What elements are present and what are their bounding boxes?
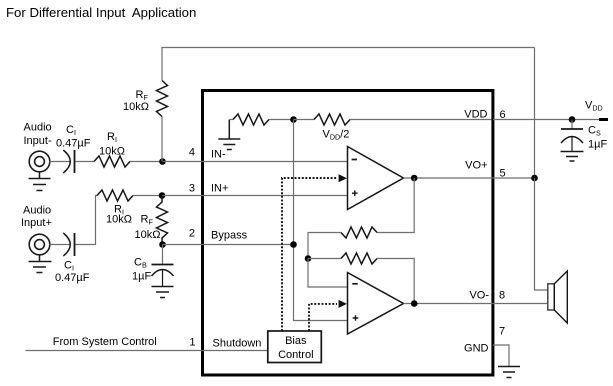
node E (bypass/divider junction) [290,241,297,248]
wire RF top to feedback line [162,48,535,81]
node B (IN+ junction) [159,192,166,199]
wire J1 to C1 [50,161,71,163]
title [6,5,196,20]
resistor R2 10k (input+) [97,190,133,201]
wire node A up to RF [161,117,163,162]
svg-text:VO-: VO- [469,290,489,302]
label VO- [469,290,489,302]
resistor Rf1 (internal upper feedback) [308,178,414,259]
svg-text:10kΩ: 10kΩ [123,101,149,113]
wire node D down to plus input lower [294,120,348,321]
label VDD supply [585,100,603,113]
pin 7 [499,326,505,338]
pin 5 [500,168,506,180]
svg-text:From System Control: From System Control [53,336,157,348]
svg-text:VDD: VDD [464,109,487,121]
svg-text:1µF: 1µF [132,271,151,283]
svg-text:IN-: IN- [211,149,226,161]
wire node B to pin 3 [162,195,348,197]
label Audio Input- [24,122,52,148]
svg-text:VO+: VO+ [465,160,487,172]
ground pin7 [498,367,520,378]
dotted bias line lower [309,300,347,331]
svg-text:7: 7 [499,326,505,338]
resistor RF 10k (feedback) [157,81,168,117]
label VO+ [465,160,487,172]
svg-text:GND: GND [464,343,489,355]
svg-text:Bias: Bias [285,335,307,347]
label CB [132,257,151,283]
svg-text:10kΩ: 10kΩ [135,229,161,241]
capacitor CB 1uF [152,245,174,287]
node D (VDD/2) [290,116,297,123]
dotted bias line upper [282,174,347,331]
label CS [588,125,607,151]
wire feedback down to VO+ [534,48,536,179]
node H (internal feedback junction) [305,255,312,262]
wire shutdown [26,350,268,352]
label Bypass [211,230,248,242]
connector J2 Audio Input+ [29,234,50,255]
label R2 [106,204,132,226]
svg-text:1µF: 1µF [588,139,607,151]
resistor Rf2 (internal lower feedback) [308,253,414,304]
svg-text:4: 4 [189,147,195,159]
svg-text:Audio: Audio [24,122,52,134]
pin 6 [500,109,506,121]
svg-text:Input-: Input- [24,135,52,147]
wire C1 to R1 [76,161,95,163]
label R1 [99,131,125,158]
ground CS [561,152,584,162]
label RF top [123,89,149,113]
pin 6 wire VDD [493,119,599,121]
label From System Control [53,336,157,348]
op-amp U1A [348,147,404,210]
connector J1 Audio Input- [29,151,50,172]
IC U1 outline [203,91,493,376]
svg-text:10kΩ: 10kΩ [99,146,125,158]
label Shutdown [213,338,262,350]
node G (VO+ / speaker junction) [531,175,538,182]
svg-text:0.47µF: 0.47µF [56,138,91,150]
label Audio Input+ [21,205,52,230]
wire U1A output to VO+ [404,177,535,179]
wire VO+ down to speaker [535,178,548,290]
pin 1 [189,337,195,349]
node C (bypass junction) [159,241,166,248]
label C1 [56,124,91,150]
svg-text:3: 3 [189,183,195,195]
svg-text:For Differential Input Applic: For Differential Input Application [6,5,196,20]
bias control box [268,331,322,363]
label VDD [464,109,487,121]
label IN- [211,149,226,161]
svg-text:Bypass: Bypass [211,230,248,242]
svg-text:5: 5 [500,168,506,180]
svg-text:Control: Control [278,349,313,361]
svg-text:Shutdown: Shutdown [213,338,262,350]
ground J1 [29,172,51,191]
node J (CS junction) [569,116,576,123]
VDD terminal bar [599,118,608,121]
speaker LS1 [548,271,568,323]
wire R2 to node B [133,195,162,197]
label C2 [55,260,90,285]
node I (U1B output) [411,300,418,307]
capacitor CS 1uF [561,120,583,152]
ground J2 [29,255,52,273]
node F (U1A output) [411,175,418,182]
wire node H to U1B minus input [308,259,348,288]
wire J2 to C2 [50,244,71,246]
svg-text:IN+: IN+ [211,183,228,195]
svg-text:Audio: Audio [23,205,51,217]
svg-text:Input+: Input+ [21,217,52,229]
ground CB [152,287,174,298]
wire C2 up to R2 [76,196,98,245]
svg-text:8: 8 [499,290,505,302]
capacitor C1 0.47uF (input-) [63,150,74,173]
svg-text:1: 1 [189,337,195,349]
label IN+ [211,183,228,195]
svg-text:6: 6 [500,109,506,121]
svg-text:0.47µF: 0.47µF [55,272,90,284]
label RF2 [135,214,161,242]
resistor R1 10k (input-) [94,156,130,167]
svg-text:2: 2 [189,228,195,240]
resistor Rd1 (divider upper) [229,114,293,125]
wire node A to pin 4 [163,161,348,163]
resistor RF2 10k (bypass) [157,196,168,245]
node A (IN- junction) [159,158,166,165]
svg-text:10kΩ: 10kΩ [106,214,132,226]
label VDD/2 [323,129,350,142]
pin 4 [189,147,195,159]
pin 3 [189,183,195,195]
ground internal (divider) [218,120,240,150]
pin 7 wire GND [493,345,509,366]
pin 8 [499,290,505,302]
wire node C to pin 2 [163,244,294,246]
resistor Rd2 VDD/2 [294,114,492,125]
pin 2 [189,228,195,240]
wire R1 to node A [130,161,163,163]
label GND [464,343,489,355]
wire U1B output to VO- [404,303,548,305]
capacitor C2 0.47uF (input+) [63,233,74,256]
op-amp U1B [348,273,404,335]
